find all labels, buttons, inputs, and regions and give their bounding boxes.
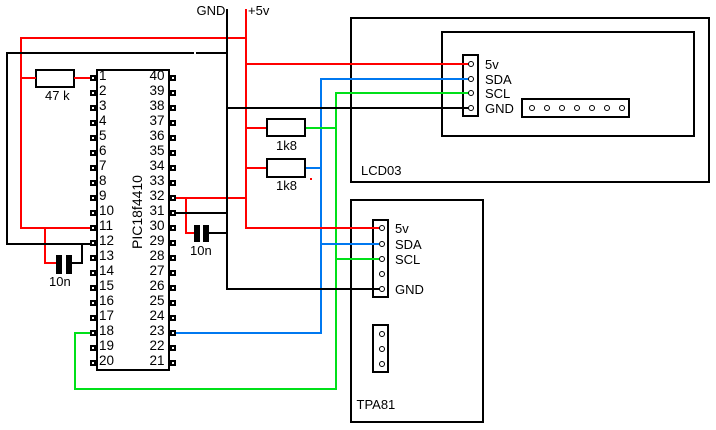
TPA81 pin SCL [379, 256, 385, 262]
wire SDA to LCD03 SDA pin [320, 78, 469, 80]
pin 2 [90, 90, 97, 97]
pin 25 [170, 300, 177, 307]
wire SDA vertical [320, 78, 322, 334]
pin 38 [170, 105, 177, 112]
pin 19 [90, 345, 97, 352]
pin 24 [170, 315, 177, 322]
wire +5v to R3 left [245, 167, 266, 169]
wire pin12 horizontal [6, 243, 90, 245]
pin 3 [90, 105, 97, 112]
wire C1 riser to pin12 wire [81, 243, 83, 264]
resistor R1 47k body [35, 69, 75, 88]
LCD03 pcb inner box [441, 31, 695, 137]
pin 26 [170, 285, 177, 292]
pin 32 [170, 195, 177, 202]
pin 28 [170, 255, 177, 262]
capacitor C2 10n left plate [194, 225, 200, 243]
resistor R1 value label [45, 89, 70, 102]
wire SDA to TPA81 SDA pin [320, 243, 379, 245]
TPA81 aux hole 2 [379, 346, 385, 352]
TPA81 aux hole 1 [379, 331, 385, 337]
capacitor C2 value label [190, 244, 212, 257]
wire SCL to TPA81 SCL pin [335, 258, 379, 260]
wire +5v to TPA81 5v pin [245, 227, 380, 229]
TPA81 pin 5v [379, 225, 385, 231]
pin 12 [90, 240, 97, 247]
wire pin18 stub [74, 332, 91, 334]
TPA81 I2C connector [372, 219, 390, 298]
IC U1 PIC18f4410 body [96, 69, 170, 371]
wire +5v top horizontal [20, 37, 247, 39]
pin 11 [90, 225, 97, 232]
capacitor C1 10n left plate [56, 255, 62, 274]
wire SCL vertical [335, 92, 337, 390]
TPA81 pin nc [379, 271, 385, 277]
pin 5 [90, 135, 97, 142]
LCD03 pin SDA [468, 76, 474, 82]
pin 35 [170, 150, 177, 157]
pin 37 [170, 120, 177, 127]
pin 16 [90, 300, 97, 307]
LCD03 pin 5v [468, 61, 474, 67]
LCD03 pin SCL [468, 90, 474, 96]
pin 15 [90, 285, 97, 292]
LCD03 header hole 5 [589, 105, 595, 111]
wire to pin11 [20, 227, 90, 229]
wire SCL to LCD03 SCL pin [335, 92, 469, 94]
pin 10 [90, 210, 97, 217]
LCD03 pin GND [468, 105, 474, 111]
TPA81 pin SDA [379, 241, 385, 247]
pin 9 [90, 195, 97, 202]
pin 18 [90, 330, 97, 337]
wire C2 right plate to GND rail [208, 232, 228, 234]
pin 33 [170, 180, 177, 187]
wire GND to LCD03 GND pin [226, 107, 470, 109]
wire R2 right to SCL [306, 127, 338, 129]
wire pin18 drop vertical [74, 332, 76, 390]
pin 14 [90, 270, 97, 277]
wire GND rail vertical [226, 9, 228, 290]
pin 39 [170, 90, 177, 97]
net label GND [197, 4, 226, 17]
pin 36 [170, 135, 177, 142]
wire pin32 to +5v rail [176, 197, 248, 199]
wire to R1 left [20, 77, 36, 79]
pin 31 [170, 210, 177, 217]
wire C2 drop vertical [185, 197, 187, 234]
pin 29 [170, 240, 177, 247]
wire R1 to pin1 [74, 77, 90, 79]
wire C2 drop horizontal [185, 232, 195, 234]
pin 30 [170, 225, 177, 232]
wire pin23 to SDA vertical [176, 332, 323, 334]
wire +5v to R2 left [245, 127, 266, 129]
pin 6 [90, 150, 97, 157]
IC U1 label PIC18f4410 [130, 142, 144, 282]
LCD03 header hole 4 [574, 105, 580, 111]
wire left edge vertical [6, 52, 8, 245]
wire left +5v vertical [20, 37, 22, 229]
LCD03 I2C connector [462, 54, 479, 117]
wire pin31 to GND rail [176, 212, 228, 214]
resistor R2 value label [276, 139, 297, 152]
wire +5v rail vertical [245, 9, 247, 229]
wire +5v to LCD03 5v pin [245, 63, 469, 65]
net label +5v [248, 4, 269, 17]
TPA81 pin GND [379, 286, 385, 292]
LCD03 header hole 6 [604, 105, 610, 111]
wire GND rail to TPA81 GND pin [226, 288, 380, 290]
LCD03 header hole 7 [619, 105, 625, 111]
pin 8 [90, 180, 97, 187]
capacitor C2 10n right plate [203, 225, 209, 243]
LCD03 module outer box [350, 17, 710, 183]
LCD03 module label [361, 164, 401, 177]
wire C1 right plate to riser [72, 262, 83, 264]
pin 27 [170, 270, 177, 277]
pin 1 [90, 75, 97, 82]
wire bottom SCL horizontal [74, 388, 337, 390]
pin 4 [90, 120, 97, 127]
pin 7 [90, 165, 97, 172]
pin 21 [170, 360, 177, 367]
wire GND top-left horizontal [6, 52, 228, 54]
TPA81 aux connector [372, 324, 390, 373]
LCD03 header hole 2 [544, 105, 550, 111]
LCD03 header hole 3 [559, 105, 565, 111]
wire nick artifact [194, 52, 196, 54]
pin 20 [90, 360, 97, 367]
pin 13 [90, 255, 97, 262]
LCD03 expansion header [521, 98, 630, 118]
capacitor C1 10n right plate [66, 255, 72, 274]
pin 40 [170, 75, 177, 82]
LCD03 header hole 1 [529, 105, 535, 111]
resistor R3 value label [276, 179, 297, 192]
wire R3 right to SDA [306, 167, 322, 169]
wire C1 drop horizontal [44, 262, 56, 264]
resistor R3 1k8 body [266, 158, 306, 178]
pin 23 [170, 330, 177, 337]
resistor R2 1k8 body [266, 118, 306, 137]
stray red dot [310, 178, 312, 180]
TPA81 aux hole 3 [379, 361, 385, 367]
wire C1 drop vertical [44, 227, 46, 264]
pin 17 [90, 315, 97, 322]
pin 22 [170, 345, 177, 352]
pin 34 [170, 165, 177, 172]
TPA81 module label [357, 398, 396, 411]
TPA81 module box [350, 199, 484, 423]
capacitor C1 value label [49, 275, 71, 288]
